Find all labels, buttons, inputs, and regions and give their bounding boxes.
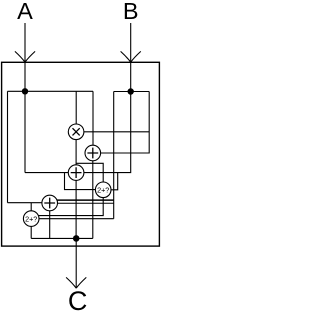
wire shifter U6 bottom down xyxy=(30,226,32,238)
arrow C head xyxy=(66,277,86,288)
wire shifter U4 bottom output left (y=215.6) xyxy=(39,198,104,216)
svg-text:2+?: 2+? xyxy=(97,186,109,195)
shifter U4 circle xyxy=(95,182,111,198)
arrow C stem xyxy=(75,238,77,287)
arrow B stem xyxy=(130,23,132,62)
node dot A tap xyxy=(22,88,28,94)
wire adder U2 bottom down (x=92.6) xyxy=(92,161,94,239)
wire adder U5 right upper output (y=200.1) xyxy=(57,199,114,201)
wire branch from B-C3 line down to shifter U4 right xyxy=(111,173,118,190)
wire A input down to tap (x=25) xyxy=(24,62,26,91)
wire A rail corner down to adder U2 top xyxy=(92,91,94,145)
svg-text:A: A xyxy=(17,0,33,24)
svg-text:2+?: 2+? xyxy=(25,214,37,223)
wire left edge down (x=7.9) xyxy=(7,91,9,202)
arrow B head xyxy=(121,51,141,62)
adder U5 plus xyxy=(44,198,55,209)
wire bottom-left rail to adder U5 (y=202.8) xyxy=(8,202,42,204)
adder U2 circle xyxy=(85,145,101,161)
wire bottom rail (y=238.4) xyxy=(31,237,93,239)
wire A down (x=25) xyxy=(24,91,26,172)
wire B rail (y=91.5) xyxy=(114,91,150,93)
outer box xyxy=(2,62,160,246)
wire branch down from A-C3 line to shifter U4 left xyxy=(65,173,96,190)
svg-text:C: C xyxy=(68,286,88,312)
node dot C output xyxy=(73,235,80,242)
adder U5 circle xyxy=(42,195,58,211)
wire adder U5 right center output (y=203.2) xyxy=(58,202,114,204)
node dot B tap xyxy=(128,88,134,94)
shifter U6 circle xyxy=(23,211,39,227)
adder U3 circle xyxy=(68,165,84,181)
wire branch down to shifter U6 top xyxy=(30,203,32,211)
wire B input down to tap xyxy=(130,62,132,91)
wire U1 bottom to U3 top xyxy=(75,140,77,165)
wire U1 output right (y=131.8) xyxy=(84,131,149,133)
wire A rail left (y=91.3) xyxy=(8,90,94,92)
svg-text:B: B xyxy=(123,0,139,24)
arrow A stem xyxy=(24,23,26,62)
wire branch right to shifter U4 top xyxy=(76,163,103,182)
multiplier U1 circle xyxy=(68,124,84,140)
wire shifter U6 output right (y=218.7) xyxy=(39,218,114,220)
wire B right branch down and into adder U2 right xyxy=(101,92,150,154)
adder U3 plus xyxy=(71,167,82,178)
arrow A head xyxy=(15,51,35,62)
adder U2 plus xyxy=(87,148,98,159)
wire adder U5 bottom down xyxy=(49,211,51,239)
wire adder U3 bottom down to output node (x=76.1) xyxy=(75,180,77,238)
wire B left branch down (x=113.7) xyxy=(113,92,115,219)
multiplier U1 cross xyxy=(73,128,80,135)
wire B down and into adder U3 right xyxy=(84,92,131,173)
wire A into adder U3 left xyxy=(25,172,68,174)
wire branch to multiplier U1 top xyxy=(75,91,77,124)
